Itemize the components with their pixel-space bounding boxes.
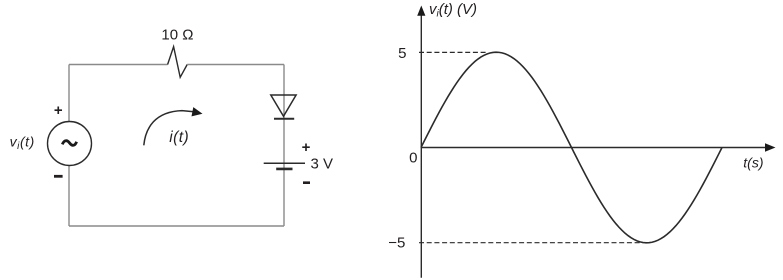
dashed line -5 [419,242,644,244]
svg-text:i(t): i(t) [169,129,189,146]
svg-text:5: 5 [398,45,406,62]
svg-text:−5: −5 [388,235,405,252]
current arrow head [192,107,203,116]
battery minus label [303,181,310,184]
resistor R 10-ohm zigzag [168,47,188,78]
diode D1 [271,95,296,119]
current arrow arc [144,111,194,146]
wire top-right segment [187,64,284,66]
AC source tilde [62,141,76,146]
svg-text:3 V: 3 V [311,156,334,173]
AC source V1 circle [48,122,92,166]
wire left lower segment [68,165,70,226]
svg-text:0: 0 [409,150,417,167]
wire right vertical [283,65,285,227]
graph vertical axis [420,14,422,278]
wire bottom [69,225,284,227]
dashed line +5 [419,51,488,53]
graph vertical axis arrowhead [417,6,425,16]
graph horizontal axis [421,147,767,149]
svg-text:vi(t) (V): vi(t) (V) [429,1,477,20]
svg-text:+: + [302,139,311,156]
source minus label [54,175,63,178]
svg-text:vi(t): vi(t) [10,134,35,153]
wire top-left segment [69,64,168,66]
battery 3V plates [264,163,305,169]
svg-text:+: + [54,102,63,119]
graph horizontal axis arrowhead [765,143,776,151]
svg-text:10 Ω: 10 Ω [161,26,193,43]
sine curve vi(t) [421,52,722,243]
wire left upper segment [68,65,70,123]
svg-text:t(s): t(s) [743,155,763,171]
